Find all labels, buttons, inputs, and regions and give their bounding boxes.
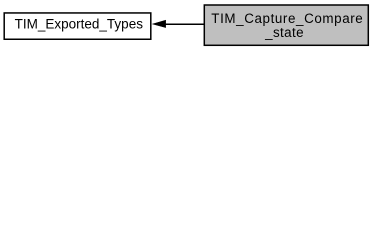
svg-text:_state: _state bbox=[264, 25, 304, 40]
node box TIM_Exported_Types bbox=[4, 13, 151, 39]
wire arrowhead bbox=[153, 20, 166, 27]
node box TIM_Capture_Compare_state bbox=[204, 5, 368, 45]
background bbox=[0, 0, 375, 52]
svg-text:TIM_Exported_Types: TIM_Exported_Types bbox=[15, 16, 144, 31]
svg-text:TIM_Capture_Compare: TIM_Capture_Compare bbox=[211, 11, 363, 26]
wire edge shaft bbox=[165, 23, 204, 25]
